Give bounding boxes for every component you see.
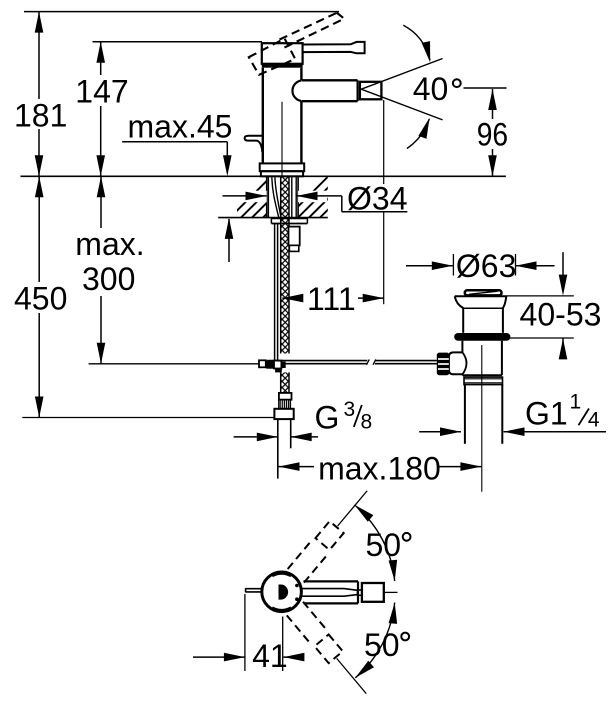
hole edges: [266, 176, 268, 217]
dashed spout 50 up: [288, 484, 376, 583]
ROD + JUNCTION: [259, 359, 437, 478]
pop-up tab: [245, 136, 263, 141]
body column: [262, 68, 264, 164]
G3/8 fitting: [279, 393, 292, 400]
dim O34: [236, 191, 267, 203]
DIMS-LEFT: [21, 12, 506, 418]
aerator: [360, 82, 382, 100]
dim 181 line: [38, 12, 40, 99]
SPRAY 40deg: [361, 25, 506, 148]
tailpipe: [464, 385, 466, 444]
dim 96: [492, 89, 494, 176]
flange (wide top, tapering down): [455, 295, 507, 297]
ref line top of raised lever: [24, 11, 339, 13]
svg-text:1: 1: [570, 391, 582, 414]
arcs 50deg: [355, 505, 395, 581]
seal ring: [454, 333, 510, 341]
WASTE: [437, 290, 511, 492]
dark band: [262, 63, 303, 67]
centerline: [481, 345, 483, 492]
ref line at spout level: [464, 87, 507, 89]
svg-text:4: 4: [588, 408, 600, 431]
deck line: [21, 175, 506, 177]
braid lower: [281, 372, 289, 393]
knurled knob: [437, 353, 450, 376]
DECK HATCH: [218, 176, 361, 217]
svg-text:G1: G1: [525, 396, 568, 432]
collar: [464, 377, 503, 385]
braided hose upper: [281, 177, 289, 354]
body: [461, 341, 463, 353]
circle: [262, 572, 302, 612]
dim max180: [279, 466, 482, 468]
dim O63: [406, 254, 555, 276]
svg-text:111: 111: [307, 281, 356, 317]
ref line rod level (max300): [89, 363, 268, 365]
base flange: [260, 163, 305, 171]
svg-text:40-53: 40-53: [520, 296, 602, 332]
svg-text:max.: max.: [75, 226, 144, 262]
dim 40-53: [506, 252, 574, 358]
svg-text:max.180: max.180: [318, 451, 441, 487]
hose tail: [277, 419, 279, 479]
centerline body: [281, 102, 283, 176]
dim G1 1/4: [419, 431, 606, 433]
dim max300 line: [100, 176, 102, 228]
svg-text:50: 50: [366, 527, 402, 563]
dim 41: [193, 594, 304, 671]
dashed lever arm: [249, 13, 344, 75]
svg-text:Ø34: Ø34: [347, 180, 407, 216]
D blob: [279, 585, 289, 600]
ref line top of housing: [93, 41, 263, 43]
svg-text:147: 147: [75, 74, 128, 110]
spout: [301, 79, 357, 81]
deck thickness arrow stem: [228, 219, 230, 262]
dashed sleeve: [249, 39, 295, 75]
arrows left dims: [35, 12, 44, 33]
hole interior lines: [267, 177, 269, 217]
svg-text:181: 181: [14, 97, 67, 133]
svg-text:max.45: max.45: [128, 109, 233, 145]
svg-text:41: 41: [252, 638, 288, 674]
dim 111: [282, 100, 383, 304]
svg-text:96: 96: [477, 116, 508, 152]
spout top view: [304, 580, 359, 582]
pop-up rod vertical: [274, 224, 276, 361]
solid lever arm: [303, 42, 365, 53]
svg-text:G: G: [315, 400, 340, 436]
FAUCET BODY: [245, 13, 382, 177]
dashed spout 50 down: [287, 602, 375, 701]
dim G3/8: [234, 436, 319, 438]
svg-text:450: 450: [14, 281, 67, 317]
BOTTOM VIEW: [246, 484, 398, 700]
svg-text:40: 40: [413, 71, 449, 107]
washer: [271, 217, 307, 219]
svg-text:8: 8: [361, 410, 373, 433]
UNDER-DECK: [268, 177, 307, 360]
svg-text:300: 300: [82, 261, 135, 297]
handle sleeve: [262, 43, 303, 64]
dim 450 line: [38, 176, 40, 282]
ref line hose end (450): [22, 417, 273, 419]
svg-text:3: 3: [344, 398, 356, 421]
fixing nut: [289, 227, 300, 246]
svg-text:50: 50: [364, 627, 400, 663]
left stub: [246, 588, 263, 590]
knob housing: [449, 352, 463, 374]
dim 147 line: [100, 42, 102, 75]
cap: [465, 290, 502, 295]
max45 underline + leader: [122, 141, 227, 143]
svg-text:Ø63: Ø63: [456, 248, 516, 284]
